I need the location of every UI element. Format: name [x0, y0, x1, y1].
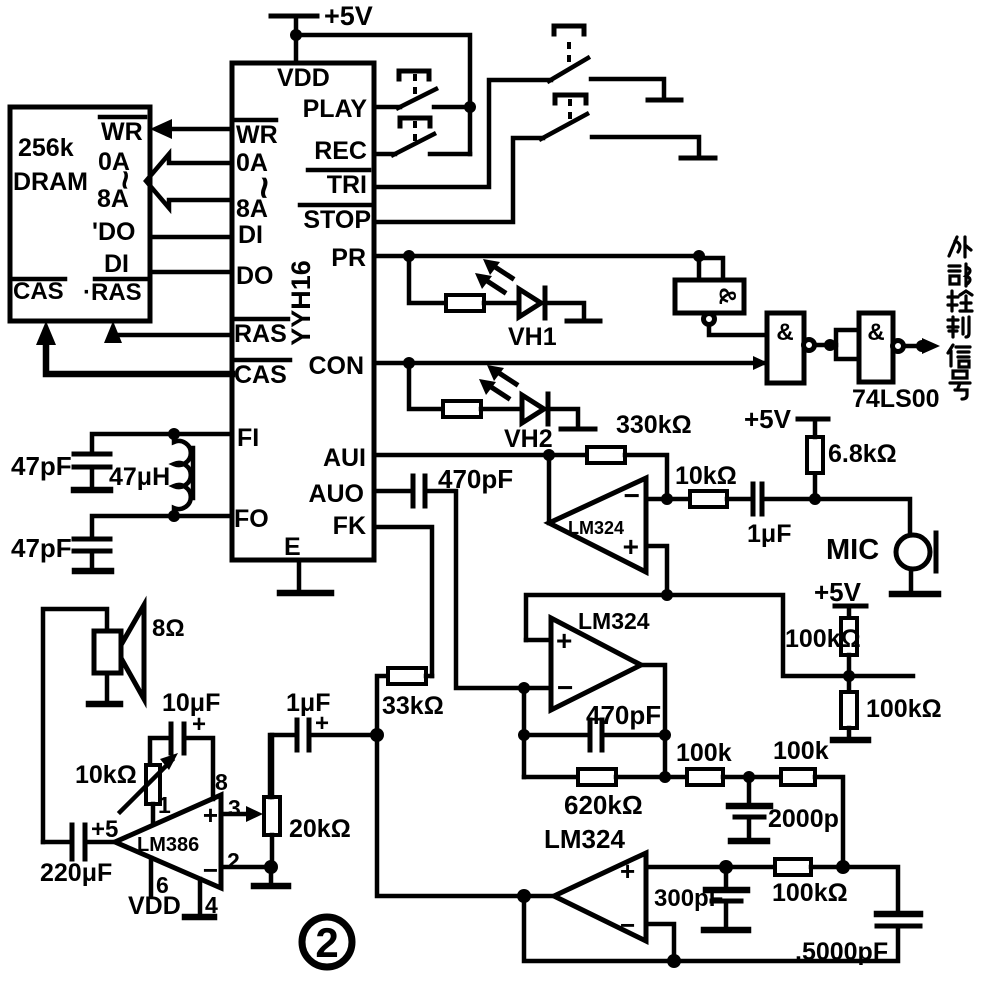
wire: 470pF to U4 inverting input: [425, 491, 524, 688]
svg-text:620kΩ: 620kΩ: [564, 790, 643, 820]
svg-text:+5: +5: [91, 816, 118, 843]
wire: VH1 branch: [409, 256, 446, 303]
svg-text:VDD: VDD: [128, 892, 181, 920]
resistor 330k (feedback of U3): [549, 447, 667, 499]
svg-text:8Ω: 8Ω: [152, 615, 185, 642]
svg-text:300pF: 300pF: [654, 885, 723, 912]
wire: AUI junction down to U3 output: [547, 455, 552, 523]
svg-text:4: 4: [205, 892, 218, 918]
wire: AUI net: [374, 453, 549, 458]
wire: resistor to VH1: [484, 301, 519, 306]
IC U2 256k DRAM: [10, 107, 150, 321]
resistor (VH2 series): [443, 401, 481, 417]
wire: pin 2 to pot bottom: [221, 848, 271, 874]
svg-text:1μF: 1μF: [747, 520, 791, 548]
gate G1 (74LS00 NAND, horizontal): [675, 280, 744, 325]
wire: feedback column left: [522, 688, 527, 777]
svg-text:.5000pF: .5000pF: [795, 938, 888, 966]
svg-text:FI: FI: [237, 424, 259, 452]
svg-text:6.8kΩ: 6.8kΩ: [828, 440, 897, 468]
node: inverting input to rail junction: [667, 954, 681, 968]
node: U4 inverting input junction: [518, 682, 530, 694]
node: U3 inverting input junction: [661, 493, 673, 505]
wire: U4 inverting input node: [524, 686, 551, 691]
wire: U5 output: [524, 894, 554, 899]
svg-text:20kΩ: 20kΩ: [289, 815, 351, 843]
wire: +5V rail to switch common: [296, 35, 470, 154]
svg-text:47μH: 47μH: [109, 463, 170, 491]
resistor 100k (U5 input): [726, 859, 848, 907]
svg-text:WR: WR: [101, 118, 143, 146]
svg-text:CON: CON: [308, 352, 364, 380]
svg-text:74LS00: 74LS00: [852, 385, 940, 413]
wire: VH1 cathode to stub: [545, 303, 584, 319]
svg-text:3: 3: [228, 795, 241, 821]
capacitor 1uF (mic coupling): [747, 484, 815, 548]
svg-text:+5V: +5V: [814, 577, 862, 607]
ground: pin 2 node: [254, 867, 288, 886]
svg-text:E: E: [284, 533, 301, 561]
svg-text:−: −: [203, 855, 218, 885]
ground: E pin of U1: [280, 560, 331, 593]
wire: resistor to VH2: [481, 407, 522, 412]
resistor 100k (lower divider): [841, 676, 942, 739]
inductor L1 47uH: [109, 434, 193, 517]
svg-text:LM324: LM324: [578, 608, 650, 634]
pushbutton switch S3 (TRI): [374, 26, 681, 187]
loudspeaker 8 Ohm: [94, 605, 185, 699]
svg-text:47pF: 47pF: [11, 451, 72, 481]
svg-text:33kΩ: 33kΩ: [382, 692, 444, 720]
capacitor C1 47pF: [11, 451, 110, 490]
ground: MIC: [892, 569, 938, 594]
resistor 6.8k: [807, 419, 897, 499]
node: lowpass junction: [743, 771, 755, 783]
wire: VH2 branch: [409, 363, 443, 409]
+5V supply rail (top): [271, 1, 373, 31]
svg-text:100kΩ: 100kΩ: [785, 625, 861, 653]
op-amp U5 LM324 (left-pointing, bottom): [544, 824, 646, 941]
wire: U3 inverting input: [646, 497, 667, 502]
node: U4 output junction: [659, 771, 671, 783]
svg-text:1: 1: [158, 792, 171, 818]
resistor 100k (second lowpass): [749, 737, 843, 867]
ground: divider: [833, 737, 868, 744]
op-amp U4 LM324 (right-pointing): [551, 608, 650, 710]
+5V supply (mic): [744, 404, 828, 434]
label: 330kOhm: [616, 411, 692, 439]
svg-text:LM324: LM324: [568, 518, 624, 538]
capacitor 220uF: [40, 816, 118, 887]
node: 100k / 5000pF junction: [836, 860, 850, 874]
wire: RAS net with up arrow: [104, 321, 232, 343]
svg-text:10μF: 10μF: [162, 689, 220, 717]
node: divider tap junction: [843, 670, 855, 682]
capacitor C2 47pF: [11, 533, 111, 571]
resistor 100k (first lowpass): [665, 739, 749, 785]
svg-text:MIC: MIC: [826, 534, 879, 566]
wire: FI net: [92, 434, 232, 452]
svg-text:DO: DO: [236, 262, 274, 290]
wire: summing line (to U4 +input and divider): [526, 595, 913, 676]
wire: FK net: [374, 527, 432, 676]
wire: U5 non-inverting input line: [646, 865, 726, 870]
capacitor 10uF (bootstrap): [162, 689, 220, 753]
pushbutton switch S1 PLAY: [374, 71, 470, 108]
capacitor 5000pF: [795, 867, 920, 966]
svg-text:AUI: AUI: [323, 444, 366, 472]
wire: DO to DI: [150, 270, 232, 275]
LED VH2: [479, 365, 553, 453]
+5V supply (divider): [814, 577, 866, 607]
svg-text:AUO: AUO: [308, 480, 364, 508]
svg-text:−: −: [624, 480, 640, 511]
pushbutton switch S2 REC: [374, 118, 470, 155]
pushbutton switch S4 (STOP): [374, 95, 715, 222]
node: PR junction at VH1 branch: [403, 250, 415, 262]
wire: AUO net: [374, 489, 413, 494]
wire: G1 output to G2 input: [709, 325, 767, 335]
svg-text:DI: DI: [238, 221, 263, 249]
svg-text:1μF: 1μF: [286, 689, 330, 717]
wire: FO net: [92, 516, 232, 537]
svg-text:2: 2: [315, 919, 338, 966]
wire: 10uF right to pin 8: [184, 738, 228, 799]
wire: PR net: [374, 254, 699, 259]
svg-text:LM386: LM386: [137, 834, 199, 856]
svg-text:−: −: [620, 910, 635, 940]
svg-text:100kΩ: 100kΩ: [772, 879, 848, 907]
node: pin2 / pot junction: [264, 860, 278, 874]
svg-text:&: &: [776, 319, 793, 346]
svg-text:TRI: TRI: [327, 171, 367, 199]
potentiometer 20k: [264, 735, 351, 867]
svg-text:100kΩ: 100kΩ: [866, 695, 942, 723]
svg-text:8A: 8A: [236, 195, 268, 223]
microphone MIC: [826, 533, 936, 571]
wire: CON net: [374, 356, 768, 370]
resistor (VH1 series): [446, 295, 484, 311]
wire: VH2 cathode to stub: [548, 409, 578, 427]
op-amp U3 LM324 (left-pointing): [549, 478, 646, 572]
wire: G2 output to G3 input: [815, 343, 836, 348]
svg-text:10kΩ: 10kΩ: [675, 462, 737, 490]
svg-text:CAS: CAS: [234, 361, 287, 389]
svg-text:FO: FO: [234, 505, 269, 533]
wire: DI to 'DO: [150, 235, 232, 240]
svg-text:DRAM: DRAM: [13, 168, 88, 196]
resistor 33k: [377, 668, 444, 735]
svg-text:8: 8: [215, 769, 228, 795]
node: CON junction at VH2 branch: [403, 357, 415, 369]
svg-text:256k: 256k: [18, 134, 74, 162]
resistor 620k (U4 feedback): [524, 769, 665, 820]
label: 74LS00: [852, 385, 940, 413]
wire: CAS net with up arrow (thick): [36, 321, 232, 374]
svg-text:RAS: RAS: [234, 320, 287, 348]
svg-text:−: −: [557, 672, 573, 703]
resistor 10k: [667, 462, 751, 507]
capacitor 1uF (output coupling): [270, 689, 377, 797]
wire: output to bottom feedback rail: [524, 896, 898, 961]
svg-text:+5V: +5V: [324, 1, 373, 31]
svg-text:VH2: VH2: [504, 425, 553, 453]
node: 300pF junction: [719, 860, 733, 874]
IC U1 YYH16: [232, 63, 374, 561]
svg-text:PLAY: PLAY: [303, 95, 368, 123]
svg-text:2: 2: [227, 848, 240, 874]
resistor 100k (upper divider): [785, 606, 861, 676]
wire: U4 output to feedback column: [641, 665, 665, 777]
node: mic bias junction: [809, 493, 821, 505]
node: feedback cap left junction: [518, 729, 530, 741]
svg-text:+: +: [620, 856, 635, 886]
svg-text:VH1: VH1: [508, 323, 557, 351]
node: FI / inductor junction: [168, 428, 180, 440]
op-amp U6 LM386 (left-pointing): [115, 795, 221, 888]
svg-text:'DO: 'DO: [92, 218, 135, 246]
wire: speaker top to 220uF: [43, 609, 107, 842]
svg-text:10kΩ: 10kΩ: [75, 761, 137, 789]
wire: PR drop into gate G1: [699, 256, 723, 280]
wire: +5V to VDD pin of U1: [294, 16, 299, 63]
svg-text:47pF: 47pF: [11, 533, 72, 563]
potentiometer 10k (gain): [75, 738, 178, 823]
svg-text:+: +: [556, 625, 572, 656]
node: summing junction: [661, 589, 673, 601]
capacitor 300pF: [654, 867, 748, 930]
node: 1uF / 33k junction: [370, 728, 384, 742]
svg-text:470pF: 470pF: [586, 700, 661, 730]
svg-text:&: &: [714, 287, 741, 304]
wire: pin 3 arrow to 20k pot: [221, 795, 263, 822]
svg-text:+5V: +5V: [744, 404, 792, 434]
svg-text:&: &: [867, 319, 884, 346]
node: AUI / op-amp output junction: [543, 449, 555, 461]
capacitor 470pF (U4 feedback): [524, 700, 665, 750]
wire: address bus 0A~8A hollow arrow: [146, 154, 232, 208]
ground: VH2 stub: [561, 427, 595, 432]
svg-text:CAS: CAS: [13, 278, 64, 305]
svg-text:LM324: LM324: [544, 824, 625, 854]
svg-text:+: +: [203, 800, 218, 830]
svg-text:REC: REC: [314, 137, 367, 165]
svg-text:0A: 0A: [236, 149, 268, 177]
svg-text:FK: FK: [333, 512, 366, 540]
node: FO / inductor junction: [168, 510, 180, 522]
svg-text:YYH16: YYH16: [286, 260, 316, 346]
node: +5V junction: [290, 29, 302, 41]
svg-text:PR: PR: [331, 244, 366, 272]
ground: speaker: [89, 673, 120, 704]
wire: U3 non-inverting input to summing line: [646, 546, 667, 595]
svg-text:8A: 8A: [97, 185, 129, 213]
svg-text:·RAS: ·RAS: [83, 279, 142, 306]
svg-text:VDD: VDD: [277, 64, 330, 92]
svg-text:STOP: STOP: [303, 206, 371, 234]
capacitor 470pF (AUO coupling): [413, 464, 513, 506]
wire: U4 non-inverting input: [526, 638, 551, 643]
wire: bias junction to MIC: [815, 499, 910, 536]
node: G2 output dot: [824, 339, 836, 351]
node: PLAY switch common junction: [464, 101, 476, 113]
wire: junction down to U5 output line: [377, 735, 524, 896]
node: PR junction at gate G1: [693, 250, 705, 262]
node: feedback cap right junction: [659, 729, 671, 741]
gate G3 (74LS00 NAND, inputs tied): [836, 313, 904, 382]
wire: WR net with arrow to U2: [150, 119, 232, 139]
LED VH1: [475, 259, 557, 351]
node: U5 output junction: [517, 889, 531, 903]
svg-text:100k: 100k: [773, 737, 829, 765]
wire: G3 output arrow (external control signal): [904, 338, 940, 354]
svg-text:2000p: 2000p: [768, 805, 839, 833]
svg-text:WR: WR: [236, 121, 278, 149]
svg-text:DI: DI: [104, 250, 129, 278]
label: external control signal (Chinese, vertical): [948, 237, 972, 399]
svg-text:220μF: 220μF: [40, 859, 112, 887]
wire: pin 6 stub: [128, 858, 181, 920]
gate G2 (74LS00 NAND): [767, 313, 815, 383]
svg-text:100k: 100k: [676, 739, 732, 767]
capacitor 2000p: [729, 777, 839, 841]
label: schematic number 2: [302, 917, 352, 967]
svg-text:330kΩ: 330kΩ: [616, 411, 692, 439]
ground: pin 4: [185, 879, 218, 918]
wire: U5 inverting input: [646, 924, 674, 961]
ground: VH1 stub: [567, 319, 600, 324]
svg-text:+: +: [623, 531, 639, 562]
